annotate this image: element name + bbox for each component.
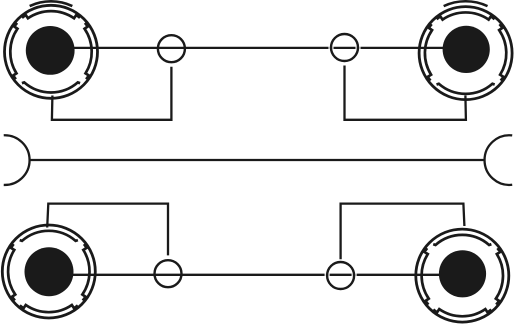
cropped housing arc top-left bbox=[30, 1, 73, 6]
cropped housing arc top-right bbox=[444, 1, 488, 6]
wire ground top-left bbox=[52, 67, 171, 120]
connector bottom-right RCA plug bbox=[416, 229, 509, 322]
wire top signal line bbox=[51, 47, 466, 49]
cable end arc right bbox=[485, 135, 513, 185]
wire ground bottom-right bbox=[341, 204, 465, 260]
cable end arc left bbox=[4, 135, 30, 185]
node shield contact top-left bbox=[158, 35, 185, 62]
connector top-right RCA plug bbox=[419, 7, 512, 100]
node shield contact bottom-left bbox=[155, 260, 182, 287]
wire bottom signal line bbox=[49, 274, 463, 276]
wire ground bottom-left bbox=[47, 204, 168, 256]
connector bottom-left RCA plug bbox=[2, 225, 95, 318]
node shield contact top-right bbox=[329, 46, 330, 49]
wire middle cable line bbox=[29, 159, 485, 161]
wire ground top-right bbox=[345, 66, 466, 120]
node shield contact bottom-right bbox=[325, 273, 326, 276]
connector top-left RCA plug bbox=[5, 5, 98, 98]
